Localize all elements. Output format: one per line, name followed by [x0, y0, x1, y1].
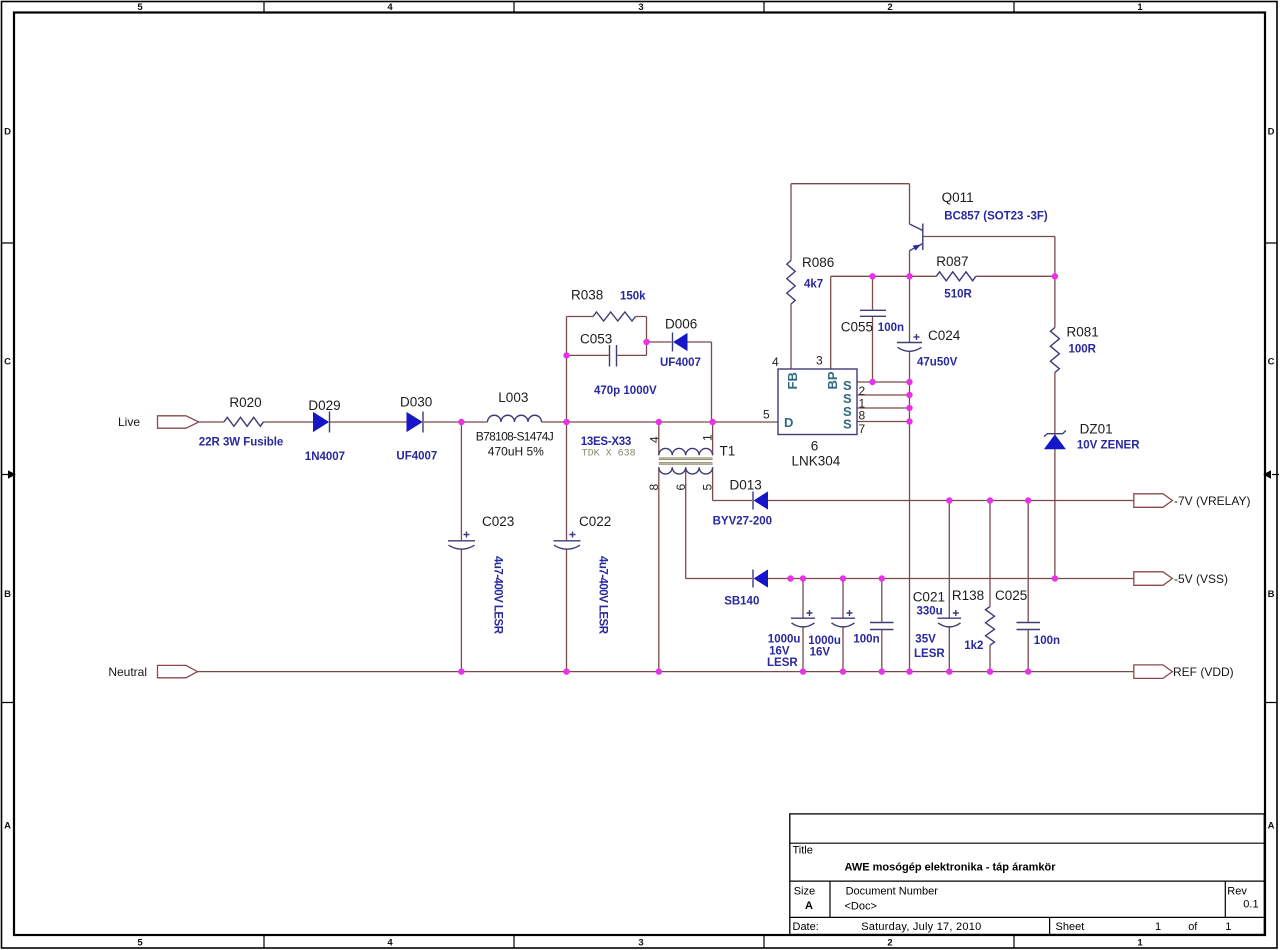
svg-text:D030: D030	[400, 395, 432, 410]
svg-text:B: B	[1268, 589, 1275, 600]
node S4	[906, 418, 912, 424]
svg-text:B: B	[4, 589, 11, 600]
wire R086 leads and FB stub	[790, 184, 792, 369]
node R087 right	[1052, 273, 1058, 279]
svg-text:-7V (VRELAY): -7V (VRELAY)	[1174, 494, 1250, 508]
svg-text:C: C	[1268, 357, 1275, 368]
diode D030	[407, 413, 422, 431]
svg-text:LESR: LESR	[914, 648, 945, 660]
svg-text:6: 6	[811, 439, 819, 454]
node snubber-D006	[643, 339, 649, 345]
resistor R087	[936, 272, 976, 281]
node REF cap1	[800, 668, 806, 674]
wire C024 lead and S column to REF	[909, 276, 911, 671]
svg-text:-5V (VSS): -5V (VSS)	[1174, 572, 1228, 586]
node REF C023	[458, 668, 464, 674]
svg-text:Sheet: Sheet	[1056, 921, 1085, 933]
svg-text:D: D	[784, 415, 793, 430]
wire D006 leads	[647, 341, 712, 343]
zone tick right	[1265, 243, 1277, 703]
wire R138 leads	[989, 501, 991, 672]
svg-text:TDK X 638: TDK X 638	[582, 449, 636, 460]
node live-T1pin4	[656, 419, 662, 425]
wire output cap1 leads	[802, 579, 804, 672]
wire S pin stubs	[857, 382, 910, 422]
diode D013	[755, 492, 768, 508]
zone tick left	[2, 243, 15, 703]
DOTS	[458, 273, 1058, 675]
wire T1 pin6 down	[685, 467, 687, 578]
node live-C023	[458, 419, 464, 425]
capacitor C023	[448, 540, 475, 542]
wire snubber right vertical	[646, 317, 648, 356]
node S3	[906, 405, 912, 411]
svg-text:Size: Size	[794, 886, 815, 898]
svg-text:LNK304: LNK304	[792, 454, 841, 469]
node C055-S	[869, 379, 875, 385]
svg-text:D013: D013	[730, 478, 762, 493]
svg-text:470p 1000V: 470p 1000V	[594, 385, 657, 397]
svg-text:C025: C025	[995, 588, 1027, 603]
svg-text:13ES-X33: 13ES-X33	[581, 436, 632, 448]
svg-text:3: 3	[816, 354, 823, 368]
svg-text:SB140: SB140	[724, 596, 759, 608]
svg-text:7: 7	[859, 422, 866, 436]
transformer T1 primary winding	[659, 448, 713, 455]
diode D029	[314, 413, 329, 431]
node REF C025	[1025, 668, 1031, 674]
svg-text:100n: 100n	[853, 634, 879, 646]
inductor L003	[488, 415, 542, 422]
center arrow right	[1272, 474, 1279, 476]
svg-text:A: A	[805, 900, 813, 912]
svg-text:R086: R086	[802, 255, 834, 270]
svg-text:Neutral: Neutral	[108, 665, 147, 679]
svg-text:A: A	[1268, 821, 1275, 832]
svg-text:0.1: 0.1	[1243, 899, 1258, 911]
wire Q011 base lead	[923, 237, 1055, 277]
svg-text:1N4007: 1N4007	[305, 451, 345, 463]
capacitor 100n output	[870, 623, 894, 630]
svg-text:REF (VDD): REF (VDD)	[1173, 665, 1234, 679]
svg-text:4: 4	[648, 436, 662, 443]
wire C021 leads	[948, 501, 950, 672]
TITLEBLOCK	[790, 814, 1265, 935]
svg-text:22R 3W Fusible: 22R 3W Fusible	[199, 437, 283, 449]
svg-text:C021: C021	[913, 590, 945, 605]
diode SB140	[755, 570, 768, 586]
wire R038 leads	[567, 316, 647, 318]
zone tick bottom	[264, 935, 1014, 948]
connector REF VDD	[1134, 665, 1173, 679]
wire T1 primary pin leads	[659, 422, 713, 455]
capacitor C024	[897, 342, 922, 344]
svg-text:3: 3	[638, 2, 643, 13]
svg-text:1: 1	[701, 434, 715, 441]
wire output cap2 leads	[842, 579, 844, 672]
svg-text:BYV27-200: BYV27-200	[713, 516, 772, 528]
wire -5V rail	[686, 578, 1134, 580]
node -5V cap3	[879, 575, 885, 581]
svg-text:150k: 150k	[620, 291, 646, 303]
connector Live	[158, 416, 199, 428]
svg-text:8: 8	[647, 484, 661, 491]
svg-text:D006: D006	[665, 317, 697, 332]
svg-text:510R: 510R	[944, 289, 972, 301]
capacitor C055	[860, 310, 886, 316]
svg-text:1: 1	[1137, 2, 1143, 13]
svg-text:4: 4	[387, 2, 393, 13]
diode D006	[674, 334, 687, 350]
zone tick top	[264, 2, 1014, 13]
svg-text:UF4007: UF4007	[396, 451, 437, 463]
svg-text:D029: D029	[308, 398, 340, 413]
resistor R020	[224, 417, 264, 426]
svg-text:100n: 100n	[878, 322, 904, 334]
svg-text:1000u: 1000u	[768, 634, 801, 646]
svg-text:330u: 330u	[917, 606, 943, 618]
node BP-C055	[869, 273, 875, 279]
svg-text:4u7-400V LESR: 4u7-400V LESR	[597, 556, 609, 635]
transistor Q2 Q011	[922, 224, 924, 251]
capacitor 1000u #2	[831, 617, 855, 619]
svg-text:1000u: 1000u	[808, 635, 841, 647]
node -5V a	[787, 575, 793, 581]
svg-text:A: A	[4, 821, 11, 832]
connector -5V VSS	[1134, 572, 1173, 586]
node live-C022	[563, 419, 569, 425]
svg-text:Saturday, July 17, 2010: Saturday, July 17, 2010	[861, 921, 981, 933]
node REF C021	[946, 668, 952, 674]
svg-text:D: D	[4, 127, 11, 138]
svg-text:Date:: Date:	[793, 921, 819, 933]
svg-text:16V: 16V	[769, 646, 790, 658]
svg-text:B78108-S1474J: B78108-S1474J	[476, 430, 554, 444]
wire live line	[199, 421, 778, 423]
zener DZ01	[1045, 435, 1065, 449]
transformer T1 secondary winding	[659, 467, 713, 474]
capacitor 1000u #1	[791, 617, 815, 619]
svg-text:2: 2	[887, 2, 892, 13]
node C053 left	[563, 352, 569, 358]
node REF T1pin8	[656, 668, 662, 674]
svg-text:UF4007: UF4007	[660, 357, 701, 369]
capacitor C022	[554, 540, 581, 542]
svg-text:8: 8	[859, 409, 866, 423]
node -7V C025	[1025, 497, 1031, 503]
connector -7V VRELAY	[1134, 494, 1173, 508]
node REF R138	[987, 668, 993, 674]
svg-text:5: 5	[701, 484, 715, 491]
svg-text:C053: C053	[580, 332, 612, 347]
resistor R081	[1050, 328, 1059, 373]
wire T1 pin8 to REF	[658, 467, 660, 671]
wire C023 leads	[460, 422, 462, 672]
svg-text:1: 1	[1225, 921, 1231, 933]
wire C025 leads	[1027, 501, 1029, 672]
svg-text:1k2: 1k2	[964, 640, 983, 652]
svg-text:S: S	[843, 417, 852, 432]
svg-text:Live: Live	[118, 415, 140, 429]
svg-text:5: 5	[137, 2, 143, 13]
svg-text:1: 1	[1155, 921, 1161, 933]
node S2	[906, 392, 912, 398]
resistor R086	[787, 261, 795, 305]
wire REF rail	[198, 671, 1134, 673]
wire -7V rail	[713, 500, 1134, 502]
capacitor C025	[1017, 623, 1041, 630]
svg-text:4: 4	[387, 938, 393, 949]
svg-text:D: D	[1268, 127, 1275, 138]
node -5V cap2	[840, 575, 846, 581]
svg-text:FB: FB	[785, 372, 800, 389]
svg-text:C023: C023	[482, 514, 514, 529]
node drain	[709, 419, 715, 425]
wire BP node line	[831, 275, 1055, 277]
node REF S	[906, 668, 912, 674]
svg-text:16V: 16V	[810, 647, 831, 659]
svg-text:1: 1	[1137, 938, 1143, 949]
wire C022 / snubber left vertical	[566, 317, 568, 672]
node -7V R138	[987, 497, 993, 503]
wire output cap3 leads	[881, 579, 883, 672]
wire Q011 emitter down	[909, 251, 911, 277]
node S1	[906, 379, 912, 385]
wire C055 leads	[872, 276, 874, 382]
svg-text:C022: C022	[579, 514, 611, 529]
svg-text:R081: R081	[1067, 325, 1099, 340]
wire R081 leads	[1054, 276, 1056, 578]
svg-text:6: 6	[674, 484, 688, 491]
wire T1 pin5 down	[712, 467, 714, 500]
svg-text:C: C	[4, 357, 11, 368]
svg-text:L003: L003	[498, 390, 528, 405]
svg-text:5: 5	[763, 408, 770, 422]
svg-text:BP: BP	[825, 371, 840, 389]
capacitor C021	[938, 617, 962, 619]
svg-text:35V: 35V	[915, 634, 936, 646]
center arrow left	[1, 474, 8, 476]
svg-text:Title: Title	[793, 845, 813, 857]
node REF C022	[563, 668, 569, 674]
svg-text:4k7: 4k7	[804, 279, 823, 291]
svg-text:2: 2	[887, 938, 892, 949]
svg-text:<Doc>: <Doc>	[845, 901, 877, 913]
connector Neutral	[158, 665, 198, 677]
svg-text:R020: R020	[229, 395, 261, 410]
node -5V cap1	[800, 575, 806, 581]
svg-text:Rev: Rev	[1227, 886, 1247, 898]
svg-text:LESR: LESR	[767, 657, 798, 669]
svg-text:BC857 (SOT23 -3F): BC857 (SOT23 -3F)	[944, 211, 1048, 223]
svg-text:R038: R038	[571, 288, 603, 303]
svg-text:R138: R138	[952, 588, 984, 603]
svg-text:C024: C024	[928, 328, 961, 343]
svg-text:Q011: Q011	[942, 190, 974, 205]
node -5V zener	[1052, 575, 1058, 581]
svg-text:AWE mosógép elektronika - táp: AWE mosógép elektronika - táp áramkör	[845, 862, 1057, 874]
wire C053 leads	[567, 354, 647, 356]
svg-text:10V ZENER: 10V ZENER	[1077, 440, 1140, 452]
transformer T1 core	[659, 458, 713, 464]
capacitor C053	[610, 345, 617, 367]
svg-text:of: of	[1188, 921, 1198, 933]
svg-text:C055: C055	[841, 320, 873, 335]
svg-text:4u7-400V LESR: 4u7-400V LESR	[492, 556, 504, 635]
node REF cap2	[840, 668, 846, 674]
svg-text:5: 5	[137, 938, 143, 949]
svg-text:4: 4	[772, 355, 779, 369]
wire BP stub	[830, 276, 832, 369]
node BP-Q011	[906, 273, 912, 279]
node REF cap3	[879, 668, 885, 674]
svg-text:100n: 100n	[1034, 635, 1060, 647]
wire D006 to drain node	[711, 342, 713, 422]
resistor R138	[986, 607, 995, 646]
svg-text:47u50V: 47u50V	[917, 357, 958, 369]
svg-text:3: 3	[638, 938, 643, 949]
wire top loop	[791, 184, 910, 224]
node -7V C021	[946, 497, 952, 503]
svg-text:100R: 100R	[1069, 344, 1097, 356]
svg-text:Document Number: Document Number	[846, 886, 939, 898]
svg-text:R087: R087	[936, 254, 968, 269]
op-amp U1 LNK304 box	[778, 369, 857, 435]
svg-text:T1: T1	[720, 444, 736, 459]
svg-text:DZ01: DZ01	[1080, 422, 1113, 437]
svg-text:470uH 5%: 470uH 5%	[488, 445, 544, 459]
resistor R038	[593, 312, 636, 321]
